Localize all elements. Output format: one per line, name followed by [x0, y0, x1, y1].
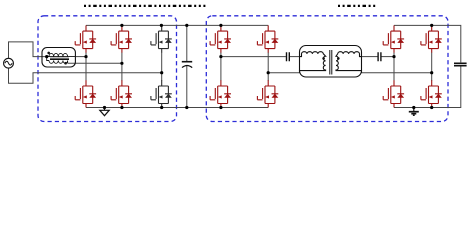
- wire: inductor upper output to leg1 midpoint: [75, 56, 86, 58]
- mosfet Q13 (secondary legD top): [421, 25, 442, 52]
- wire: inductor lower output to leg2 midpoint: [68, 62, 122, 64]
- series capacitor C2 (primary): [287, 52, 290, 61]
- wire: leg1 midpoint vertical: [85, 52, 87, 81]
- wire: transformer secondary bottom to legD midpoint: [362, 72, 432, 74]
- wire: series capacitor to legC midpoint: [382, 56, 395, 58]
- node: ac to inductor input: [45, 55, 48, 58]
- junction: legC midpoint: [392, 55, 395, 58]
- junction: output ground on bottom rail: [412, 106, 415, 109]
- mosfet Q12 (secondary legC bottom): [383, 80, 404, 107]
- wire: leg3 midpoint vertical: [161, 52, 163, 81]
- junction: ground on bottom rail: [103, 106, 106, 109]
- mosfet Q2 (PFC leg1 bottom): [75, 80, 96, 107]
- dashed box: PFC stage: [38, 16, 177, 122]
- wire: bottom DC rail (PFC to primary bridge): [86, 107, 268, 109]
- junction: leg1 midpoint: [84, 55, 87, 58]
- junction: dc-link cap on top rail: [185, 24, 188, 27]
- output capacitor C4: [454, 62, 467, 64]
- junction: legB midpoint: [267, 71, 270, 74]
- junction: legD midpoint: [430, 71, 433, 74]
- mosfet Q9 (primary legB top): [257, 25, 278, 52]
- junction: leg3 drain on top rail: [160, 24, 163, 27]
- dc-link capacitor C1: [182, 62, 192, 68]
- mosfet Q14 (secondary legD bottom): [421, 80, 442, 107]
- wire: leg2 midpoint vertical: [121, 52, 123, 81]
- wire: ac source top loop: [9, 42, 48, 58]
- junction: dc-link cap on bottom rail: [185, 106, 188, 109]
- wire: primary legB midpoint vertical: [267, 52, 269, 81]
- mosfet Q5 (PFC slow leg top, black): [151, 25, 172, 52]
- ac source V1: [4, 58, 14, 68]
- junction: legD source on bottom output rail: [430, 106, 433, 109]
- junction: legD drain on top output rail: [430, 24, 433, 27]
- wire: top output rail (secondary bridge): [394, 25, 461, 62]
- wire: dc-link capacitor top lead: [186, 25, 188, 61]
- wire: transformer secondary to series capacitor: [362, 56, 378, 58]
- series capacitor C3 (secondary): [378, 52, 381, 61]
- coupled inductor L1: [42, 48, 75, 68]
- junction: leg3 midpoint: [160, 71, 163, 74]
- wire: legB to transformer primary bottom: [268, 72, 299, 74]
- ground (output, bar style): [409, 108, 419, 116]
- wire: dc-link capacitor bottom lead: [186, 65, 188, 107]
- junction: leg2 drain on top rail: [120, 24, 123, 27]
- mosfet Q1 (PFC leg1 top): [75, 25, 96, 52]
- caption dots (DC-DC stage label): [338, 5, 376, 7]
- wire: top DC rail (PFC to primary bridge): [86, 24, 268, 26]
- junction: legA drain on top rail: [219, 24, 222, 27]
- junction: legA midpoint: [219, 55, 222, 58]
- wire: legA to series capacitor: [221, 56, 286, 58]
- mosfet Q4 (PFC leg2 bottom): [111, 80, 132, 107]
- wire: primary legA midpoint vertical: [220, 52, 222, 81]
- ground (PFC, open triangle): [100, 108, 109, 116]
- wire: secondary legD midpoint vertical: [431, 52, 433, 81]
- junction: leg2 source on bottom rail: [120, 106, 123, 109]
- transformer T1: [300, 46, 362, 78]
- wire: ac source bottom return to slow leg: [9, 68, 162, 83]
- mosfet Q11 (secondary legC top): [383, 25, 404, 52]
- wire: secondary legC midpoint vertical: [393, 52, 395, 81]
- mosfet Q6 (PFC slow leg bottom, black): [151, 80, 172, 107]
- junction: leg3 source on bottom rail: [160, 106, 163, 109]
- junction: legA source on bottom rail: [219, 106, 222, 109]
- mosfet Q8 (primary legA bottom): [210, 80, 231, 107]
- junction: leg2 midpoint: [120, 62, 123, 65]
- dashed box: isolated DC-DC stage: [206, 16, 448, 122]
- wire: series capacitor to transformer primary: [290, 56, 300, 58]
- mosfet Q10 (primary legB bottom): [257, 80, 278, 107]
- wire: bottom output rail (secondary bridge): [394, 66, 461, 107]
- mosfet Q3 (PFC leg2 top): [111, 25, 132, 52]
- mosfet Q7 (primary legA top): [210, 25, 231, 52]
- caption dots (PFC stage label): [84, 5, 208, 7]
